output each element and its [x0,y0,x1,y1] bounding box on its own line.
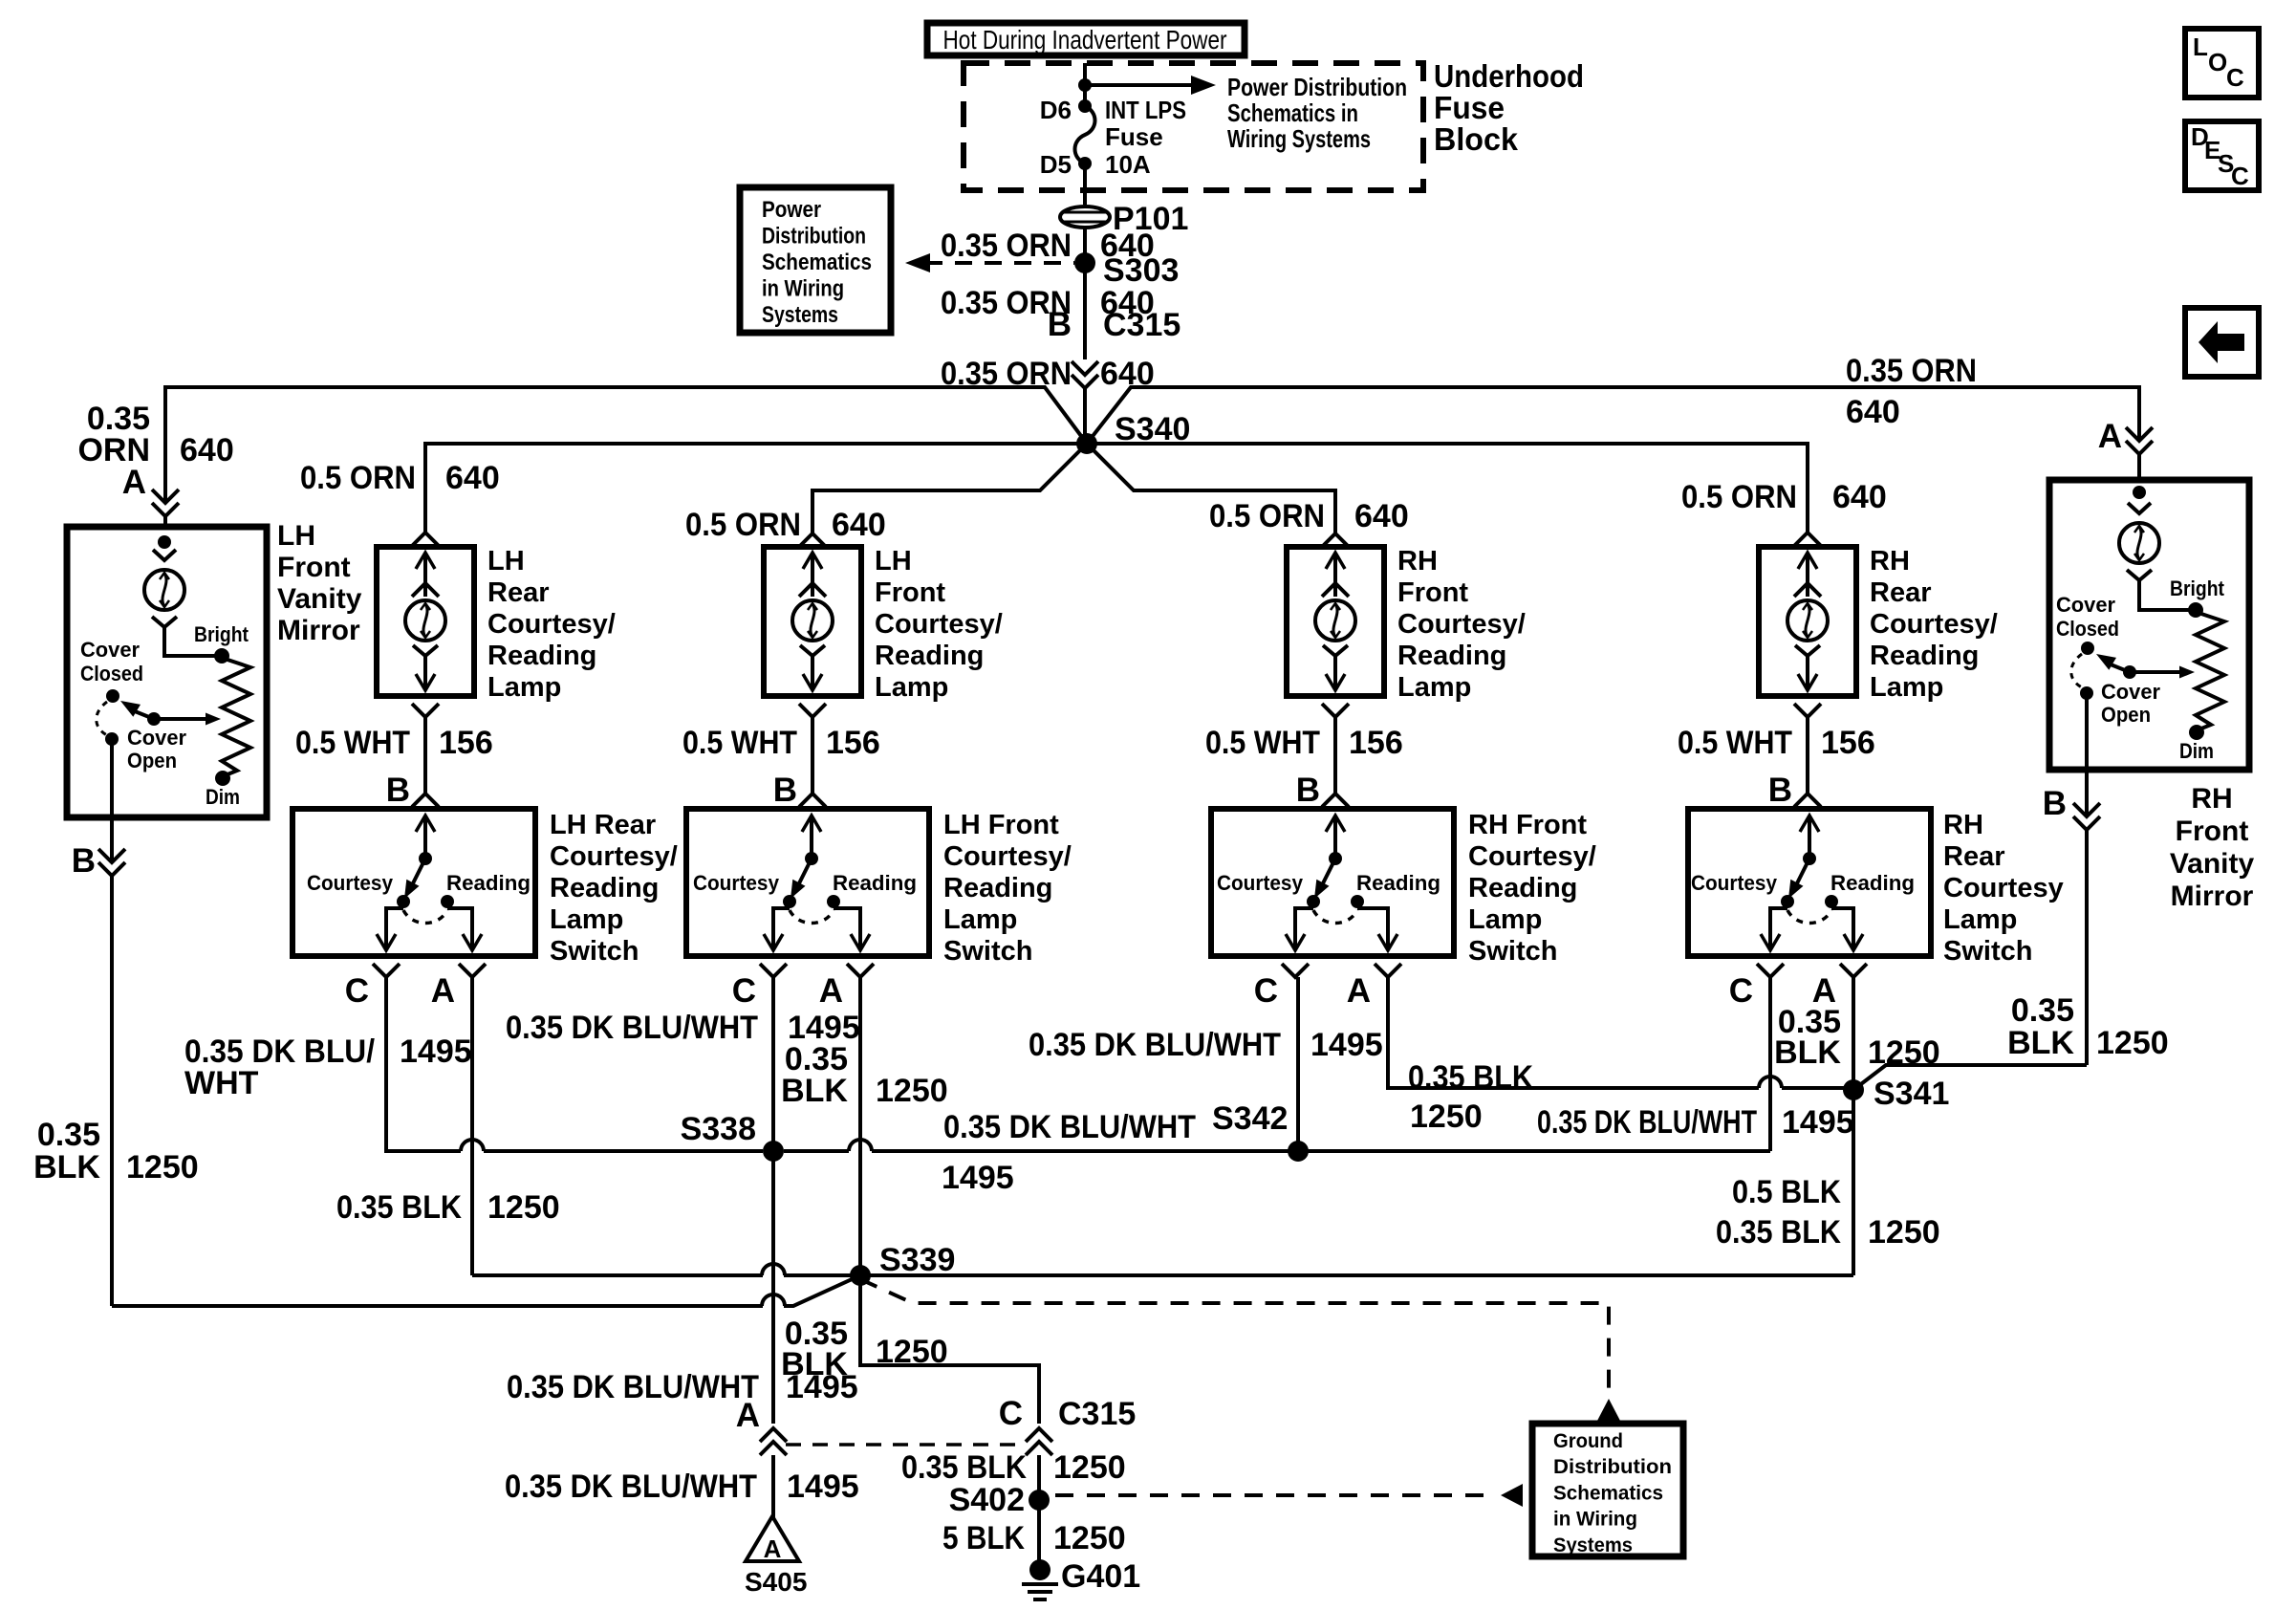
wire: P101 to S303 [1083,228,1087,263]
svg-text:640: 640 [832,507,886,543]
Hot During Inadvertent Power box [927,23,1245,55]
wire: LH Rear switch pin C down to 1495 bus [386,977,461,1151]
1495 bus hop over LR pin A wire [461,1140,484,1151]
svg-text:RH: RH [1870,546,1910,577]
svg-text:Reading: Reading [1468,873,1577,903]
svg-text:B: B [773,772,797,809]
svg-text:Lamp: Lamp [943,904,1017,935]
RH Front Vanity Mirror [2049,480,2249,770]
1495 bus: to S338 [484,1149,763,1153]
Dim contact RH [2189,725,2204,740]
wire: LH Rear switch pin A down to 1250 bus [470,977,474,1275]
svg-text:D6: D6 [1040,96,1072,124]
splice S303 [1074,252,1095,273]
svg-text:Distribution: Distribution [1553,1456,1672,1478]
svg-text:Switch: Switch [1943,936,2032,967]
svg-text:156: 156 [826,725,880,761]
Bright contact RH [2188,602,2203,618]
svg-text:G401: G401 [1061,1558,1140,1595]
svg-text:Systems: Systems [762,302,838,328]
wire: S341 down to 1250 bus [1852,1090,1855,1275]
svg-text:156: 156 [439,725,493,761]
svg-text:INT LPS: INT LPS [1105,96,1186,124]
svg-text:1495: 1495 [942,1160,1014,1196]
svg-text:A: A [819,972,843,1010]
svg-text:S405: S405 [745,1567,807,1597]
svg-text:Courtesy: Courtesy [1691,871,1778,895]
wire: LH vanity pin B down [110,739,114,862]
svg-text:Reading: Reading [1356,871,1440,895]
Cover Closed contact [106,689,119,703]
LH Rear Courtesy/Reading Lamp [377,547,474,696]
svg-text:Reading: Reading [943,873,1052,903]
svg-text:in Wiring: in Wiring [762,276,844,302]
wiper LH [147,712,161,726]
svg-text:Rear: Rear [1943,841,2005,872]
svg-text:0.5 BLK: 0.5 BLK [1732,1174,1841,1210]
svg-text:Cover: Cover [127,726,186,750]
svg-text:Reading: Reading [833,871,917,895]
svg-text:Courtesy: Courtesy [693,871,780,895]
svg-text:Courtesy/: Courtesy/ [875,609,1003,640]
wire: RH vanity B to S341 [1853,1065,2087,1090]
wire lamp to switch LR [412,704,439,717]
svg-text:1250: 1250 [1053,1520,1126,1556]
svg-text:C: C [999,1395,1023,1432]
svg-text:C315: C315 [1058,1396,1136,1432]
svg-text:1250: 1250 [876,1334,948,1370]
splice S341 [1843,1079,1864,1100]
wire: LH Front switch pin C down to S338 and S405 [771,977,775,1151]
svg-text:640: 640 [1354,498,1409,534]
svg-text:Reading: Reading [550,873,659,903]
svg-text:1495: 1495 [1310,1027,1383,1063]
splice S402 [1029,1490,1050,1511]
svg-text:L: L [2193,33,2208,61]
RH Front Courtesy/Reading Lamp [1287,547,1384,696]
ref box Ground Distribution Schematics in Wiring Systems [1532,1424,1683,1556]
svg-text:0.35 BLK: 0.35 BLK [1408,1059,1533,1096]
RH Rear Courtesy Lamp Switch [1688,809,1931,956]
svg-text:BLK: BLK [781,1073,848,1109]
svg-text:RH: RH [1397,546,1438,577]
dashed ref: S402 to Ground Distribution box [1055,1493,1497,1497]
svg-text:BLK: BLK [2007,1025,2074,1061]
svg-text:LH Front: LH Front [943,810,1059,840]
svg-text:C: C [345,972,369,1010]
wire lamp to switch RF [1322,704,1349,717]
wire: fuse to P101 [1083,163,1087,205]
wire: RH Rear switch pin C down to 1495 bus [1768,977,1772,1151]
svg-text:0.35 DK BLU/WHT: 0.35 DK BLU/WHT [943,1109,1196,1145]
svg-text:Cover: Cover [80,638,140,662]
LH Front Vanity Mirror [67,527,267,817]
svg-text:1250: 1250 [1053,1449,1126,1486]
svg-text:S342: S342 [1212,1100,1288,1137]
switch arm LH (to Cover Closed) [130,709,154,719]
svg-text:BLK: BLK [33,1149,100,1186]
svg-text:Cover: Cover [2056,593,2115,617]
svg-text:C: C [1254,972,1278,1010]
svg-text:BLK: BLK [781,1346,848,1382]
svg-text:1250: 1250 [1410,1099,1483,1135]
svg-text:Lamp: Lamp [487,672,561,703]
svg-text:C: C [1729,972,1753,1010]
svg-text:Reading: Reading [1397,641,1506,671]
svg-text:S402: S402 [949,1482,1025,1518]
1495 bus: S342 to RH Rear pin C [1298,1149,1770,1153]
svg-text:Lamp: Lamp [875,672,948,703]
svg-text:LH: LH [875,546,912,577]
svg-text:Lamp: Lamp [1397,672,1471,703]
svg-text:Courtesy/: Courtesy/ [1870,609,1998,640]
svg-text:1250: 1250 [126,1149,199,1186]
wire lamp to switch RR [1794,704,1821,717]
svg-text:LH Rear: LH Rear [550,810,656,840]
svg-text:Power Distribution: Power Distribution [1227,73,1407,101]
ground G401 [1029,1559,1051,1580]
svg-text:1250: 1250 [1868,1214,1940,1251]
wire: fuse block feed [1083,63,1087,106]
Dim contact [215,771,230,786]
svg-text:C315: C315 [1103,307,1180,343]
svg-text:0.35 DK BLU/WHT: 0.35 DK BLU/WHT [506,1010,758,1046]
svg-text:A: A [764,1534,782,1563]
svg-text:0.5 WHT: 0.5 WHT [1205,725,1320,761]
svg-text:0.35: 0.35 [37,1117,100,1153]
LH Front Courtesy/Reading Lamp [764,547,861,696]
wire: S340 to RH Front lamp [1087,444,1335,533]
svg-text:Lamp: Lamp [550,904,623,935]
grommet P101 [1060,207,1110,228]
svg-text:Bright: Bright [194,622,249,646]
svg-text:0.35 ORN: 0.35 ORN [941,228,1072,264]
wire: RH Front switch pin C down to S342 [1296,977,1300,1151]
rheostat LH [222,658,250,776]
wire: S303 to C315 [1083,263,1087,359]
splice S340 [1076,433,1097,454]
svg-text:RH: RH [1943,810,1983,840]
svg-text:Reading: Reading [1870,641,1979,671]
wire: LH vanity B to S339 [112,1304,763,1308]
svg-text:Hot During Inadvertent Power: Hot During Inadvertent Power [943,25,1227,54]
svg-text:0.35 DK BLU/WHT: 0.35 DK BLU/WHT [505,1469,757,1505]
svg-text:S339: S339 [879,1242,955,1278]
svg-text:Mirror: Mirror [2171,881,2254,912]
svg-text:Courtesy: Courtesy [1217,871,1304,895]
svg-text:Schematics: Schematics [762,250,872,275]
junction in fuse block [1078,78,1092,92]
svg-text:0.35 ORN: 0.35 ORN [1846,353,1977,389]
svg-text:Switch: Switch [1468,936,1557,967]
svg-text:0.5 ORN: 0.5 ORN [1681,479,1797,515]
svg-text:Courtesy/: Courtesy/ [943,841,1072,872]
svg-text:640: 640 [180,432,234,468]
splice S339 [850,1265,871,1286]
svg-text:0.35 DK BLU/WHT: 0.35 DK BLU/WHT [507,1369,759,1405]
svg-text:0.35 BLK: 0.35 BLK [1716,1214,1841,1251]
svg-text:Courtesy/: Courtesy/ [550,841,678,872]
arrow to Power Distribution Schematics (top) [1085,83,1197,87]
1250 bus: LR pin A to S339 to S341 [472,1273,763,1277]
svg-text:1495: 1495 [400,1033,472,1070]
ref box Power Distribution Schematics in Wiring Systems [740,187,891,333]
svg-text:Lamp: Lamp [1870,672,1943,703]
svg-text:Rear: Rear [1870,577,1932,608]
svg-text:WHT: WHT [184,1065,259,1101]
wire: S340 to LH Front lamp [812,444,1087,533]
rheostat RH [2196,612,2224,730]
svg-text:Schematics in: Schematics in [1227,98,1358,127]
svg-text:B: B [1048,306,1072,343]
dashed ref: S339 to Ground Distribution box [860,1279,1609,1398]
svg-text:B: B [72,842,96,880]
svg-text:0.5 ORN: 0.5 ORN [1209,498,1325,534]
svg-text:Open: Open [2101,703,2151,727]
Bright contact [214,648,229,664]
svg-text:Front: Front [2176,816,2249,847]
svg-text:Mirror: Mirror [277,615,360,646]
wire lamp to switch LF [799,704,826,717]
svg-text:S303: S303 [1103,252,1179,289]
wire: RH Front switch pin A to S341 [1388,977,1759,1088]
svg-text:A: A [2098,418,2122,455]
splice S342 [1288,1141,1309,1162]
svg-text:Reading: Reading [487,641,596,671]
dashed wire S303 to Power Distribution ref [925,261,1074,265]
svg-text:Front: Front [1397,577,1468,608]
svg-text:B: B [1768,772,1792,809]
svg-text:156: 156 [1821,725,1875,761]
svg-text:O: O [2208,48,2227,76]
wire: S339 down-branch to C315 pin C [860,1275,1039,1424]
wire: right bus to RH vanity [1087,387,2139,444]
svg-text:0.35 DK BLU/WHT: 0.35 DK BLU/WHT [1537,1104,1757,1141]
svg-text:RH: RH [2191,783,2232,815]
Cover Open contact [105,732,119,746]
RH Rear Courtesy/Reading Lamp [1759,547,1856,696]
svg-text:Power: Power [762,197,821,223]
svg-text:Vanity: Vanity [2170,848,2255,880]
svg-text:Courtesy/: Courtesy/ [1397,609,1526,640]
svg-text:in Wiring: in Wiring [1553,1509,1637,1531]
svg-text:Courtesy: Courtesy [1943,873,2064,903]
svg-text:10A: 10A [1105,150,1151,179]
LOC box [2185,29,2259,98]
svg-text:Switch: Switch [550,936,639,967]
svg-text:LH: LH [277,520,315,552]
svg-text:D5: D5 [1040,150,1072,179]
svg-text:Front: Front [277,552,351,583]
svg-text:0.5 WHT: 0.5 WHT [1678,725,1792,761]
svg-text:1250: 1250 [487,1189,560,1226]
wire: C315 pin C to G401 [1037,1455,1041,1570]
svg-text:Cover: Cover [2101,680,2160,704]
svg-text:B: B [1296,772,1320,809]
1495 bus hop over LF pin A wire [784,1149,849,1153]
svg-text:Lamp: Lamp [1943,904,2017,935]
svg-text:Rear: Rear [487,577,550,608]
svg-text:5 BLK: 5 BLK [942,1520,1025,1556]
svg-text:Block: Block [1434,121,1519,157]
svg-text:640: 640 [1846,394,1900,430]
svg-text:A: A [1347,972,1371,1010]
svg-text:640: 640 [1832,479,1887,515]
svg-text:C: C [2231,162,2249,190]
dashed arc cover positions LH [97,702,107,735]
svg-text:0.5 WHT: 0.5 WHT [295,725,410,761]
svg-text:Wiring Systems: Wiring Systems [1227,124,1371,153]
DESC box [2185,121,2259,190]
wire: RH Rear switch pin A down to S341 [1852,977,1855,1090]
RH Front Courtesy/Reading Lamp Switch [1211,809,1454,956]
svg-text:Fuse: Fuse [1105,122,1163,151]
svg-text:1495: 1495 [1782,1104,1854,1141]
svg-text:0.5 WHT: 0.5 WHT [682,725,797,761]
wire: LH Front switch pin A down to S339 [858,977,862,1275]
svg-text:Dim: Dim [2179,739,2214,763]
svg-text:0.5 ORN: 0.5 ORN [300,460,416,496]
svg-text:Courtesy/: Courtesy/ [1468,841,1596,872]
svg-text:156: 156 [1349,725,1403,761]
ground splice S405 triangle [746,1516,799,1561]
svg-text:Schematics: Schematics [1553,1482,1663,1504]
Cover Open contact RH [2080,686,2093,700]
svg-text:Courtesy: Courtesy [307,871,394,895]
dashed arc RH [2071,654,2082,687]
svg-text:Closed: Closed [80,662,143,685]
wire: left bus to LH vanity [165,387,1087,503]
wire: S340 to LH Rear lamp [425,444,1087,532]
LH Front Courtesy/Reading Lamp Switch [686,809,929,956]
svg-text:A: A [431,972,455,1010]
switch arm RH [2106,663,2130,672]
svg-text:C: C [732,972,756,1010]
svg-text:Bright: Bright [2170,577,2225,600]
svg-text:BLK: BLK [1774,1034,1841,1071]
svg-text:1495: 1495 [787,1469,859,1505]
svg-text:Reading: Reading [875,641,984,671]
svg-text:0.35: 0.35 [2011,992,2074,1029]
svg-text:Open: Open [127,749,177,772]
svg-text:Vanity: Vanity [277,583,362,615]
wiper RH [2123,665,2136,679]
svg-text:Underhood: Underhood [1434,58,1584,94]
svg-text:S338: S338 [681,1111,756,1147]
svg-text:B: B [2043,785,2067,822]
svg-text:RH Front: RH Front [1468,810,1587,840]
svg-text:0.5 ORN: 0.5 ORN [685,507,801,543]
svg-text:1250: 1250 [2096,1025,2169,1061]
svg-text:640: 640 [445,460,500,496]
svg-text:C: C [2226,63,2244,92]
svg-text:LH: LH [487,546,525,577]
svg-text:Dim: Dim [206,785,240,809]
splice S338 [763,1141,784,1162]
svg-text:Front: Front [875,577,945,608]
svg-text:Switch: Switch [943,936,1032,967]
svg-text:0.35 DK BLU/WHT: 0.35 DK BLU/WHT [1029,1027,1281,1063]
wire: C315 to S340 [1083,388,1087,444]
svg-text:0.35 BLK: 0.35 BLK [901,1449,1027,1486]
wire: RH vanity pin B down [2085,693,2089,816]
svg-text:Courtesy/: Courtesy/ [487,609,616,640]
back arrow box [2185,308,2259,377]
svg-text:Reading: Reading [446,871,531,895]
svg-text:Distribution: Distribution [762,224,866,250]
1495 bus: S338 to S342 [872,1149,1298,1153]
LH Rear Courtesy/Reading Lamp Switch [292,809,535,956]
wire: S340 to RH Rear lamp [1087,444,1808,532]
svg-text:0.35 BLK: 0.35 BLK [336,1189,462,1226]
svg-text:Lamp: Lamp [1468,904,1542,935]
svg-text:A: A [122,464,146,501]
svg-text:Systems: Systems [1553,1534,1633,1556]
svg-text:Fuse: Fuse [1434,90,1505,125]
Underhood Fuse Block dashed box [964,63,1423,190]
svg-text:B: B [386,772,410,809]
svg-text:Reading: Reading [1830,871,1915,895]
svg-text:A: A [736,1397,760,1434]
svg-text:S341: S341 [1874,1076,1949,1112]
fuse INT LPS 10A [1078,99,1092,113]
svg-text:Closed: Closed [2056,617,2119,641]
Cover Closed contact RH [2081,642,2094,655]
dashed connector line C315 [786,1443,1027,1447]
svg-text:1250: 1250 [876,1073,948,1109]
svg-text:Ground: Ground [1553,1430,1623,1452]
